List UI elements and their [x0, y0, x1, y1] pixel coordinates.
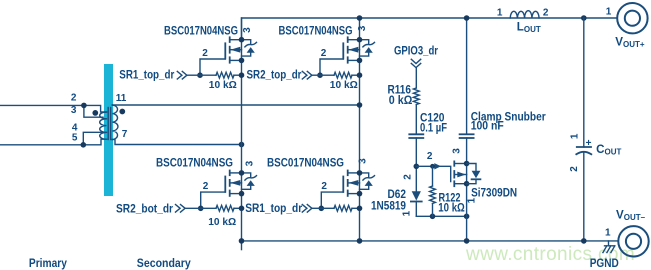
node Q1 source tap	[239, 72, 245, 78]
wire C120 to D62 node	[415, 138, 417, 191]
wire primary pin4 branch	[83, 132, 106, 145]
terminal VOUT+	[617, 3, 647, 33]
svg-text:Si7309DN: Si7309DN	[471, 187, 517, 200]
Q2 gate bar	[342, 43, 344, 58]
node Q4 gate tap	[319, 206, 325, 212]
node R122 top tee	[430, 164, 435, 169]
svg-text:1N5819: 1N5819	[371, 200, 406, 213]
svg-text:BSC017N04NSG: BSC017N04NSG	[164, 24, 238, 37]
svg-text:Primary: Primary	[29, 258, 68, 270]
svg-text:+: +	[586, 138, 592, 149]
svg-text:2: 2	[569, 166, 580, 172]
Q4 gate bar	[342, 177, 344, 192]
svg-text:1: 1	[605, 227, 611, 238]
terminal VOUT-	[618, 226, 648, 256]
node Q5 top stub	[464, 161, 470, 167]
Q2 body stub with arrow	[348, 49, 360, 51]
node clamp branch on top rail	[464, 15, 470, 21]
Q2 body diode (schottky)	[360, 40, 369, 45]
resistor R122 10 kOhm	[432, 166, 434, 186]
Q1 source stub	[230, 59, 242, 61]
Q3 body diode (schottky)	[242, 173, 251, 178]
svg-text:2: 2	[202, 48, 208, 59]
Q1 drain stub	[230, 39, 242, 41]
transformer T1 primary winding	[100, 112, 107, 139]
wire secondary pin11 mid rail	[112, 104, 359, 106]
wire C_OUT to bottom rail	[583, 153, 585, 241]
wire top rail (VOUT+ net)	[242, 18, 617, 40]
node Q3 gate tap	[198, 206, 204, 212]
Q3 drain stub	[230, 172, 242, 174]
wire Q3 gate riser	[201, 192, 226, 208]
svg-text:3: 3	[242, 27, 253, 33]
wire primary pin5 input	[0, 139, 107, 145]
Q5 channel segments	[453, 161, 455, 186]
resistor Q3 gate 10k	[201, 207, 216, 209]
node Q4 source	[357, 191, 363, 197]
node Q3 drain	[239, 170, 245, 176]
wire Q2 gate riser	[320, 59, 343, 75]
node bottom-left rail junction	[239, 238, 245, 244]
svg-text:2: 2	[402, 174, 413, 180]
Q2 channel segments	[347, 37, 349, 62]
wire SR2_bot_dr to Q3 tap	[186, 207, 201, 209]
node Q2 drain	[357, 37, 363, 43]
Q1 channel segments	[229, 37, 231, 62]
node Q1 gate tap	[197, 72, 203, 78]
svg-text:1: 1	[569, 133, 580, 139]
node M2 source on mid rail	[357, 102, 363, 108]
node pin7 junction on M1 line	[239, 142, 245, 148]
capacitor C_OUT (polarized)	[577, 146, 591, 148]
svg-text:3: 3	[245, 160, 256, 166]
svg-text:11: 11	[116, 93, 127, 104]
Q5 source stub	[454, 183, 466, 185]
Q4 body stub with arrow	[348, 182, 360, 184]
wire bottom rail (VOUT- net)	[242, 240, 619, 242]
wire D62 bottom to Q5 drain line	[416, 215, 466, 217]
svg-text:1: 1	[497, 7, 503, 18]
wire primary pin3 branch	[84, 105, 107, 118]
svg-text:1: 1	[402, 210, 413, 216]
Q3 body stub with arrow	[230, 182, 242, 184]
wire SR1_top_dr to Q1 tap	[187, 74, 200, 76]
wire Q1 gate riser	[200, 59, 225, 75]
arrow gate connector	[434, 163, 441, 169]
wire R116 to C120	[415, 105, 417, 135]
capacitor C120 0.1uF	[409, 134, 423, 138]
wire SR2_top_dr to Q2 tap	[312, 74, 320, 76]
wire top rail to C_OUT	[583, 18, 585, 147]
Q3 channel segments	[229, 171, 231, 196]
Q1 body diode (schottky)	[242, 40, 251, 45]
Q4 body diode (schottky)	[360, 173, 369, 178]
ground PGND symbol	[603, 241, 615, 253]
Q3 gate bar	[224, 177, 226, 192]
node M2 drain on top rail	[357, 15, 363, 21]
svg-text:2: 2	[203, 181, 209, 192]
node Q2 source tap	[357, 72, 363, 78]
transformer T1 core	[108, 108, 111, 140]
Q5 body stub with arrow	[454, 174, 466, 176]
svg-text:SR2_top_dr: SR2_top_dr	[247, 69, 302, 82]
polarity dot secondary	[119, 109, 125, 115]
svg-text:3: 3	[357, 25, 368, 31]
Q1 body stub with arrow	[230, 49, 242, 51]
isolation barrier bar	[104, 64, 113, 196]
svg-text:2: 2	[427, 151, 433, 162]
node M4 source on bottom rail	[357, 238, 363, 244]
resistor R116 0 kOhm	[413, 88, 419, 105]
svg-text:GPIO3_dr: GPIO3_dr	[394, 45, 438, 58]
Q5 body diode	[467, 164, 476, 171]
svg-text:2: 2	[321, 48, 327, 59]
diode D62 1N5819	[412, 191, 421, 200]
node Q5 bottom stub	[464, 181, 470, 187]
Q4 source stub	[348, 193, 360, 195]
wire primary pin2 input	[0, 105, 107, 112]
node Q3 source	[239, 191, 245, 197]
node Q5 drain line bottom junction	[464, 214, 470, 220]
svg-text:1: 1	[466, 197, 477, 203]
svg-text:3: 3	[452, 148, 463, 154]
chevron GPIO3_dr (down)	[411, 59, 420, 67]
node R122 bottom	[430, 214, 436, 220]
wire stub below bottom-left node	[241, 241, 243, 250]
wire SR1_top_dr to Q4 tap	[312, 207, 321, 209]
Q2 drain stub	[348, 39, 360, 41]
wire M1 vertical bus	[241, 18, 243, 241]
node Q1 drain	[239, 37, 245, 43]
svg-text:2: 2	[321, 181, 327, 192]
node Q5 line on bottom rail	[464, 238, 470, 244]
svg-text:100 nF: 100 nF	[471, 120, 504, 133]
svg-text:0 kΩ: 0 kΩ	[389, 94, 413, 107]
Q5 drain stub	[454, 163, 466, 165]
svg-text:2: 2	[543, 7, 549, 18]
inductor L_OUT	[510, 11, 539, 18]
svg-text:SR1_top_dr: SR1_top_dr	[245, 202, 302, 215]
Q4 channel segments	[347, 171, 349, 196]
Q3 source stub	[230, 193, 242, 195]
node Q1 source	[239, 58, 245, 64]
svg-text:10 kΩ: 10 kΩ	[209, 79, 237, 91]
svg-text:SR2_bot_dr: SR2_bot_dr	[116, 202, 173, 215]
node D62 top / gate wire tee	[414, 164, 420, 170]
wire secondary pin7 to M1 source	[112, 140, 241, 145]
svg-text:Secondary: Secondary	[137, 258, 192, 270]
node Q3 source tap	[239, 206, 245, 212]
resistor Q4 gate 10k	[321, 207, 334, 209]
wire M2 vertical bus	[359, 18, 361, 241]
resistor Q1 gate 10k	[200, 74, 216, 76]
node Q4 drain	[357, 170, 363, 176]
svg-text:2: 2	[71, 93, 77, 104]
wire clamp cap to Q5	[466, 138, 468, 241]
Q1 gate bar	[224, 43, 226, 58]
polarity dot primary	[92, 110, 98, 116]
wire top rail to clamp snubber	[466, 18, 468, 134]
node C_OUT branch on top rail	[581, 15, 587, 21]
node Q2 gate tap	[317, 72, 323, 78]
svg-text:10 kΩ: 10 kΩ	[330, 79, 358, 91]
wire Q5 gate	[416, 166, 450, 181]
svg-text:3: 3	[71, 105, 77, 116]
svg-text:BSC017N04NSG: BSC017N04NSG	[267, 156, 344, 169]
svg-text:1: 1	[606, 7, 612, 18]
capacitor clamp snubber 100nF	[460, 134, 474, 138]
node C_OUT on bottom rail	[581, 238, 587, 244]
wire Q4 gate riser	[321, 192, 343, 208]
svg-text:PGND: PGND	[590, 257, 619, 270]
svg-text:7: 7	[122, 129, 128, 140]
svg-text:BSC017N04NSG: BSC017N04NSG	[279, 24, 353, 37]
wire GPIO3_dr to R116	[415, 68, 417, 88]
node primary top junction	[81, 103, 87, 109]
resistor Q2 gate 10k	[320, 74, 334, 76]
Q4 drain stub	[348, 172, 360, 174]
svg-text:5: 5	[72, 132, 78, 143]
transformer T1 secondary winding	[112, 105, 118, 140]
node Q2 source	[357, 58, 363, 64]
node primary bottom junction	[81, 142, 87, 148]
node Q4 source tap	[357, 206, 363, 212]
svg-text:SR1_top_dr: SR1_top_dr	[119, 68, 174, 81]
svg-text:3: 3	[357, 158, 368, 164]
Q2 source stub	[348, 59, 360, 61]
svg-text:0.1 µF: 0.1 µF	[420, 121, 447, 134]
svg-text:BSC017N04NSG: BSC017N04NSG	[156, 156, 233, 169]
svg-text:10 kΩ: 10 kΩ	[438, 202, 465, 215]
svg-text:10 kΩ: 10 kΩ	[208, 216, 236, 228]
